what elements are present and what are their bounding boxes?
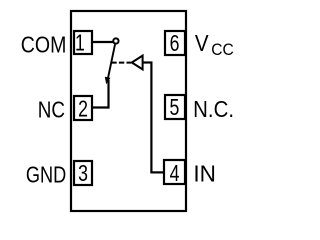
- svg-text:N.C.: N.C.: [193, 96, 234, 122]
- wire control to pin4: [150, 171, 164, 173]
- IC body outline: [71, 11, 186, 211]
- label VCC (pin 6): [195, 30, 234, 59]
- pin 6 box: [165, 31, 185, 55]
- pin 4 box: [164, 160, 185, 184]
- pin 5 box: [165, 95, 185, 119]
- pin 3 box: [74, 161, 92, 185]
- svg-text:NC: NC: [38, 98, 65, 123]
- control dashed line: [111, 62, 131, 64]
- svg-text:V: V: [195, 30, 209, 56]
- svg-text:1: 1: [75, 30, 85, 56]
- svg-text:CC: CC: [211, 40, 234, 59]
- pin 2 box: [74, 96, 92, 120]
- svg-text:3: 3: [78, 161, 88, 187]
- wiper arrowhead: [105, 77, 111, 85]
- svg-text:4: 4: [170, 161, 180, 187]
- svg-text:5: 5: [169, 95, 179, 121]
- switch wiper lever: [108, 45, 115, 80]
- svg-text:6: 6: [170, 31, 180, 57]
- wire control horizontal from arrowhead: [143, 61, 153, 63]
- wire pin1 to switch pole: [92, 41, 113, 43]
- wire control vertical: [150, 62, 152, 173]
- wire pin2 vertical up to wiper contact: [107, 80, 109, 109]
- pin 1 box: [74, 31, 92, 54]
- switch pole circle: [113, 38, 118, 43]
- svg-text:IN: IN: [193, 160, 216, 186]
- hollow control arrowhead: [132, 56, 143, 70]
- svg-text:COM: COM: [21, 32, 67, 58]
- wire pin2 horizontal: [92, 106, 109, 108]
- svg-text:2: 2: [78, 96, 88, 122]
- svg-text:GND: GND: [26, 163, 66, 189]
